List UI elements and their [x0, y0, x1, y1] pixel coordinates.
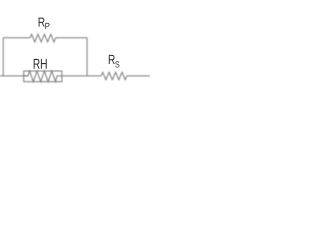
resistor RH box — [24, 71, 62, 82]
label RH — [34, 59, 47, 69]
wire middle (box to RS) — [62, 75, 101, 77]
wire right — [127, 75, 150, 77]
wire right vertical — [86, 38, 88, 76]
resistor RS — [101, 72, 127, 79]
wire bottom-left — [0, 75, 28, 77]
resistor RP — [30, 34, 56, 42]
label RP — [39, 18, 50, 29]
resistor RH element — [24, 71, 62, 82]
wire top-right — [56, 37, 88, 39]
label RS — [109, 55, 120, 68]
wire left vertical — [2, 38, 4, 76]
wire top-left — [3, 37, 30, 39]
